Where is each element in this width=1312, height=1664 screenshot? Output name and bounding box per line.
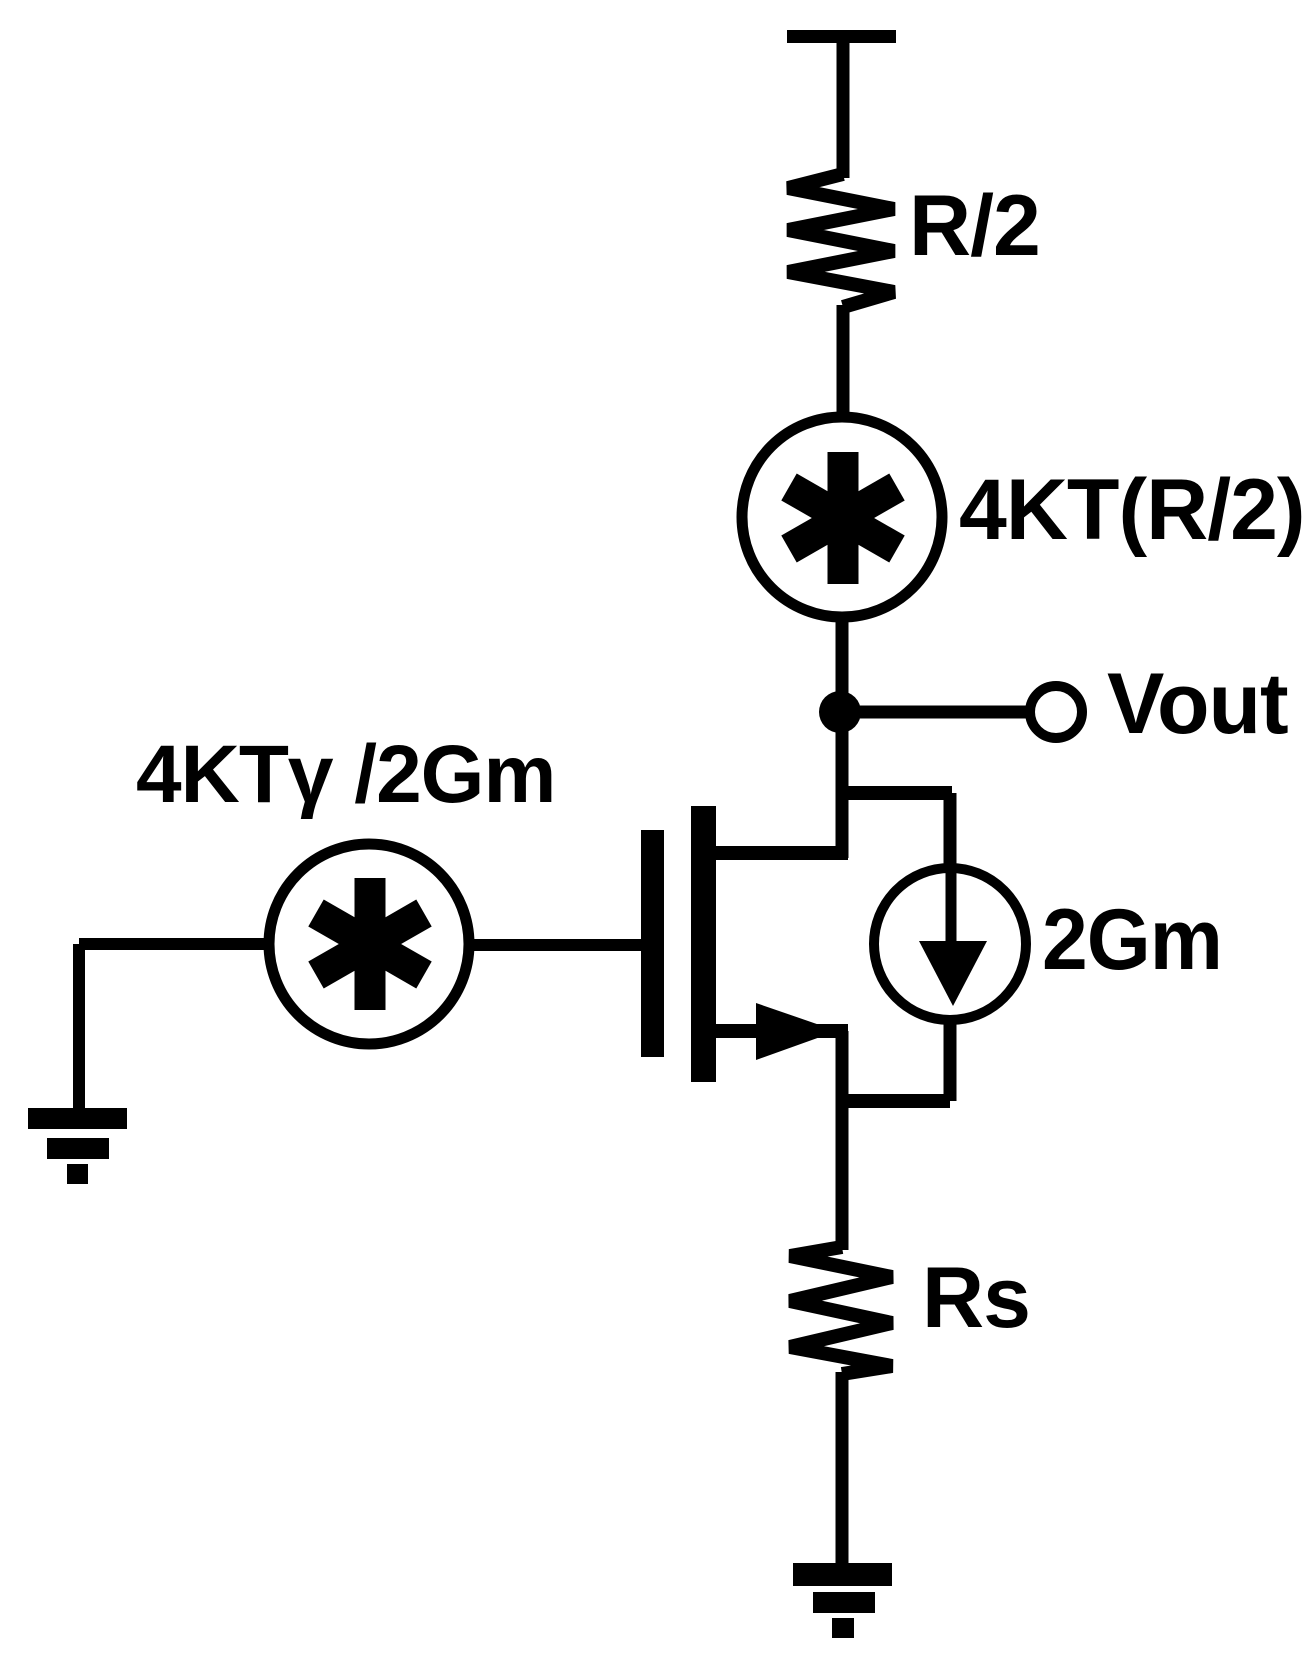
wire drain branch to current source (top) <box>837 786 952 800</box>
wire noise source to left riser <box>79 938 268 950</box>
noise source 4KT(R/2) <box>742 417 942 617</box>
svg-text:4KTγ /2Gm: 4KTγ /2Gm <box>136 729 555 820</box>
wire Rs to ground <box>836 1372 849 1570</box>
noise source 4KTgamma/2Gm <box>269 844 469 1044</box>
terminal Vout <box>1030 686 1082 738</box>
transistor M1 <box>641 806 848 1082</box>
current source 2Gm <box>874 868 1026 1020</box>
ground (left) <box>28 1108 127 1184</box>
wire source down to Rs <box>836 1031 849 1250</box>
wire node down to drain <box>836 712 849 858</box>
wire left riser down <box>73 944 85 1112</box>
wire current source bottom lead <box>944 1016 957 1101</box>
svg-text:2Gm: 2Gm <box>1042 892 1222 988</box>
svg-text:Vout: Vout <box>1107 656 1288 752</box>
power rail <box>787 30 896 43</box>
svg-text:4KT(R/2): 4KT(R/2) <box>959 462 1305 558</box>
wire gate to noise source <box>472 939 645 951</box>
resistor R/2 <box>788 174 894 307</box>
wire R/2 to noise source <box>837 305 850 422</box>
wire current source top lead <box>944 793 957 872</box>
wire current source bottom to source wire <box>836 1094 950 1108</box>
wire rail to R/2 <box>837 40 850 178</box>
svg-text:Rs: Rs <box>922 1250 1030 1346</box>
svg-text:R/2: R/2 <box>909 178 1040 274</box>
ground (bottom) <box>793 1563 892 1638</box>
wire noise source to node <box>836 612 849 720</box>
node Vout junction <box>819 691 861 733</box>
resistor Rs <box>790 1247 892 1374</box>
wire node to Vout terminal <box>840 706 1028 719</box>
